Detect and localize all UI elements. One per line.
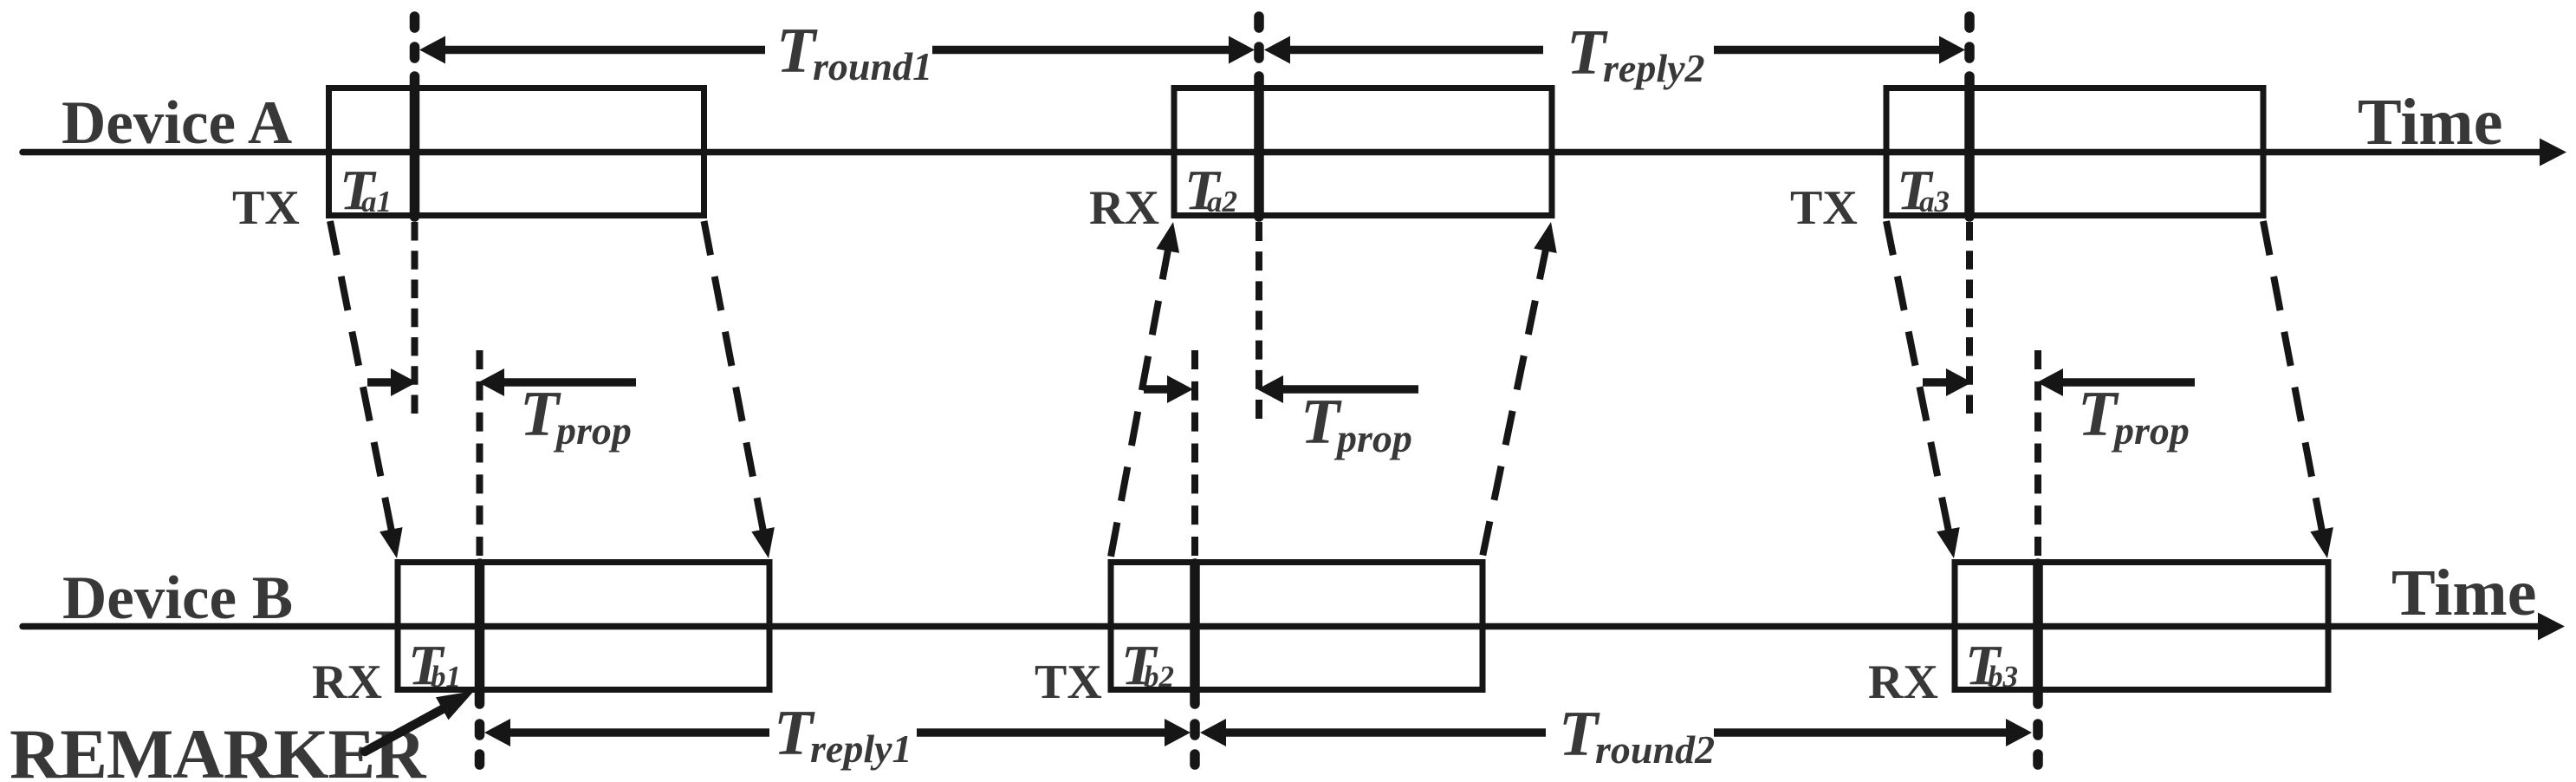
marker Ta2 solid bbox=[1254, 76, 1264, 217]
marker Ta2 dashed below bbox=[1256, 222, 1262, 419]
svg-text:prop: prop bbox=[2111, 408, 2190, 453]
propagation msg1 right dashed line bbox=[704, 221, 764, 531]
propagation msg3 right dashed line bbox=[2263, 221, 2322, 531]
marker Ta3 dotted top bbox=[1964, 16, 1975, 28]
Tprop group1 right-pointing arrow bbox=[367, 378, 394, 387]
REMARKER arrow shaft bbox=[365, 707, 447, 752]
svg-text:reply2: reply2 bbox=[1603, 46, 1705, 90]
svg-text:RX: RX bbox=[1868, 655, 1938, 709]
svg-text:a3: a3 bbox=[1919, 185, 1950, 218]
Tprop group3 right-pointing arrow bbox=[1923, 378, 1950, 387]
svg-text:b1: b1 bbox=[431, 660, 461, 694]
svg-text:reply1: reply1 bbox=[810, 727, 912, 771]
dimension Treply2 right line bbox=[1714, 46, 1941, 55]
dimension Treply2 right arrowhead bbox=[1939, 36, 1965, 64]
Tprop group3 left-pointing arrow bbox=[2037, 368, 2063, 396]
dimension Tround1 left arrowhead bbox=[419, 36, 445, 64]
dimension Tround1 right line bbox=[932, 46, 1232, 55]
marker Tb1 solid bbox=[475, 564, 485, 704]
marker Tb1 dashed above bbox=[477, 350, 483, 556]
marker Tb1 dotted below bbox=[475, 724, 485, 735]
box B2 bbox=[1111, 563, 1483, 690]
svg-text:T: T bbox=[520, 379, 561, 450]
svg-text:T: T bbox=[1301, 387, 1342, 458]
marker Ta1 solid bbox=[410, 76, 420, 217]
dimension Tround2 right arrowhead bbox=[2006, 719, 2032, 746]
svg-text:TX: TX bbox=[232, 181, 300, 235]
svg-text:TX: TX bbox=[1790, 181, 1858, 235]
marker Ta3 dashed below bbox=[1966, 222, 1973, 414]
dimension Treply2 left line bbox=[1287, 46, 1543, 55]
box B3 bbox=[1955, 563, 2328, 690]
svg-text:a1: a1 bbox=[361, 185, 392, 218]
Tprop group2 left-pointing arrow bbox=[1257, 375, 1283, 403]
dimension Tround1 left line bbox=[442, 46, 765, 55]
dimension Treply1 left line bbox=[507, 728, 769, 737]
box B1 bbox=[398, 563, 769, 690]
propagation msg3 left dashed line bbox=[1886, 221, 1949, 531]
dimension Tround2 left line bbox=[1223, 728, 1546, 737]
svg-text:Time: Time bbox=[2358, 86, 2502, 159]
timeline B arrowhead bbox=[2538, 613, 2565, 641]
svg-text:T: T bbox=[1559, 699, 1600, 770]
dimension Tround2 left arrowhead bbox=[1200, 719, 1226, 746]
timeline Device A bbox=[23, 149, 2540, 156]
propagation msg2 left dashed line bbox=[1111, 245, 1169, 557]
propagation msg2 right dashed line bbox=[1483, 245, 1547, 557]
timeline Device B bbox=[23, 623, 2538, 630]
timeline A arrowhead bbox=[2540, 139, 2566, 166]
svg-text:round2: round2 bbox=[1595, 727, 1715, 772]
svg-text:Device A: Device A bbox=[62, 89, 292, 157]
svg-text:b3: b3 bbox=[1988, 660, 2018, 694]
svg-text:T: T bbox=[1567, 17, 1608, 88]
marker Ta1 dotted top bbox=[410, 16, 420, 28]
svg-text:T: T bbox=[776, 16, 818, 87]
svg-text:prop: prop bbox=[553, 408, 632, 453]
box A2 bbox=[1174, 88, 1552, 216]
svg-text:b2: b2 bbox=[1144, 660, 1174, 694]
marker Ta2 dotted top bbox=[1254, 16, 1264, 28]
box A3 bbox=[1886, 88, 2263, 216]
svg-text:T: T bbox=[774, 698, 815, 769]
marker Tb3 dotted below bbox=[2033, 724, 2043, 735]
dimension Treply1 left arrowhead bbox=[484, 719, 510, 746]
marker Tb2 solid bbox=[1190, 564, 1200, 704]
svg-text:RX: RX bbox=[312, 655, 382, 709]
dimension Treply2 left arrowhead bbox=[1264, 36, 1290, 64]
marker Ta3 solid bbox=[1964, 76, 1975, 217]
propagation msg1 left dashed line bbox=[330, 221, 392, 531]
Tprop group2 right-pointing arrow bbox=[1144, 385, 1171, 394]
dimension Tround2 right line bbox=[1714, 728, 2010, 737]
svg-text:a2: a2 bbox=[1207, 185, 1237, 218]
box A1 bbox=[329, 88, 704, 216]
svg-text:Time: Time bbox=[2391, 557, 2536, 629]
svg-text:TX: TX bbox=[1035, 655, 1102, 709]
marker Ta1 dashed below bbox=[412, 222, 419, 414]
svg-text:Device B: Device B bbox=[62, 564, 293, 632]
svg-text:round1: round1 bbox=[813, 44, 932, 88]
dimension Treply1 right arrowhead bbox=[1165, 719, 1191, 746]
marker Tb2 dashed above bbox=[1191, 350, 1198, 556]
REMARKER arrowhead bbox=[436, 691, 474, 720]
svg-text:prop: prop bbox=[1333, 416, 1412, 460]
marker Tb3 solid bbox=[2033, 564, 2043, 704]
marker Tb3 dashed above bbox=[2034, 350, 2041, 556]
svg-text:T: T bbox=[2078, 379, 2119, 450]
Tprop group1 left-pointing arrow bbox=[478, 368, 504, 396]
marker Tb2 dotted below bbox=[1190, 724, 1200, 735]
dimension Tround1 right arrowhead bbox=[1229, 36, 1255, 64]
svg-text:RX: RX bbox=[1089, 181, 1159, 235]
dimension Treply1 right line bbox=[917, 728, 1169, 737]
